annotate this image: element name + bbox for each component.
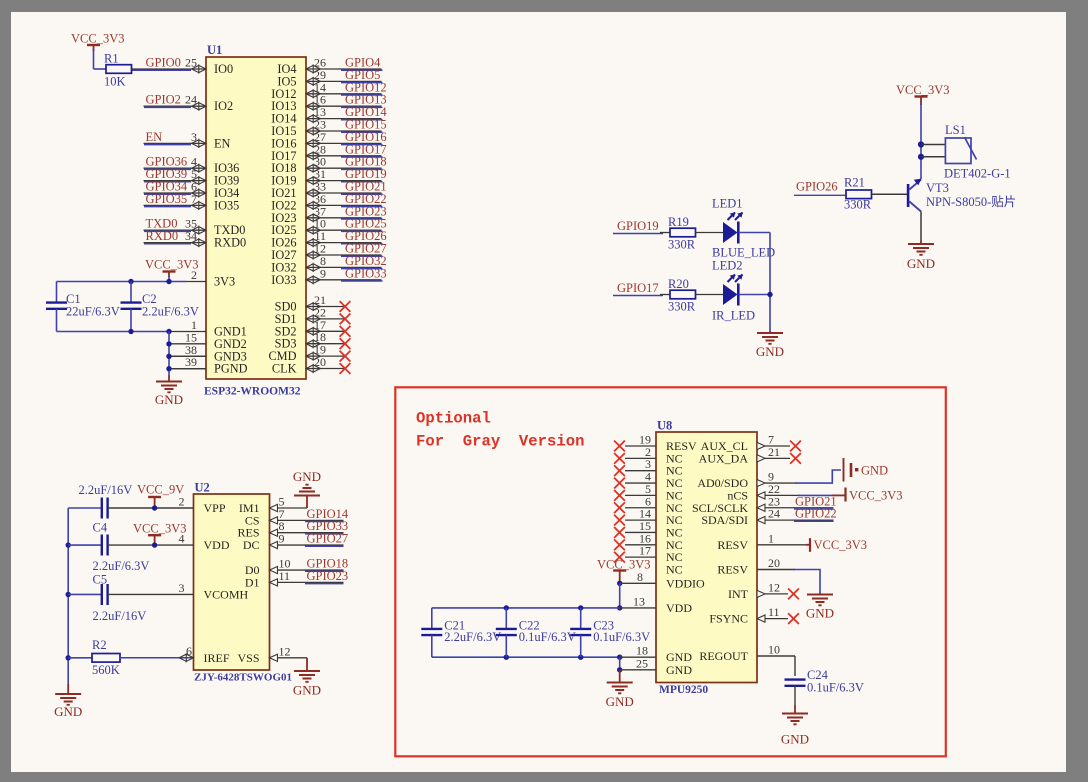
- wire: [341, 280, 383, 282]
- pin 7 (IO35): [144, 192, 240, 213]
- node junction: [578, 655, 583, 660]
- svg-text:17: 17: [639, 544, 651, 558]
- wire: [794, 520, 834, 522]
- wire: [57, 281, 187, 283]
- svg-text:VT3: VT3: [926, 181, 949, 195]
- pin 12 (VSS): [237, 644, 290, 665]
- LED LED2: [712, 259, 743, 306]
- wire: [613, 233, 663, 235]
- svg-text:R2: R2: [92, 638, 107, 652]
- svg-text:GND: GND: [54, 704, 82, 719]
- pin 20 (CLK) no-connect: [272, 355, 351, 376]
- svg-text:GPIO22: GPIO22: [795, 507, 837, 521]
- pin 11 (D1): [245, 569, 290, 590]
- pin 28 (IO17): [271, 142, 381, 163]
- wire: [341, 82, 383, 84]
- wire: [144, 243, 191, 245]
- svg-text:10: 10: [768, 643, 780, 657]
- wire: [660, 294, 670, 296]
- power VCC_9V: [137, 483, 184, 509]
- svg-text:NPN-S8050-贴片: NPN-S8050-贴片: [926, 195, 1016, 209]
- ground: [756, 331, 784, 359]
- svg-text:11: 11: [279, 569, 291, 583]
- svg-text:330R: 330R: [844, 198, 872, 212]
- svg-text:GPIO26: GPIO26: [796, 180, 838, 194]
- wire: [613, 295, 663, 297]
- pin 26 (IO4): [277, 56, 381, 77]
- wire: [432, 656, 620, 658]
- ground: [293, 469, 321, 508]
- svg-text:GND: GND: [756, 344, 784, 359]
- wire: [57, 331, 172, 333]
- power VCC_3V3: [145, 258, 198, 282]
- wire: [769, 233, 771, 332]
- wire: [144, 206, 191, 208]
- svg-text:SDA/SDI: SDA/SDI: [701, 513, 748, 527]
- pin 8 (VDDIO): [620, 570, 705, 591]
- pin 15 (GND2): [171, 330, 247, 351]
- node junction: [152, 542, 157, 547]
- svg-text:3V3: 3V3: [214, 275, 235, 289]
- svg-text:24: 24: [768, 507, 780, 521]
- wire: [794, 656, 796, 676]
- svg-text:21: 21: [768, 445, 780, 459]
- capacitor C22: [496, 608, 576, 657]
- svg-text:0.1uF/6.3V: 0.1uF/6.3V: [593, 630, 650, 644]
- pin 2 (VPP): [179, 495, 226, 516]
- pin 24 (IO2): [144, 93, 234, 114]
- svg-text:R21: R21: [844, 176, 865, 190]
- op-amp U1 body: [206, 57, 306, 379]
- pin 37 (IO23): [271, 204, 381, 225]
- wire: [168, 332, 170, 376]
- svg-text:25: 25: [185, 56, 197, 70]
- pin 19 (CMD) no-connect: [268, 343, 350, 364]
- pin 6 (IREF): [179, 644, 230, 665]
- node junction: [578, 605, 583, 610]
- optional region box: [395, 387, 946, 756]
- svg-text:3: 3: [179, 581, 185, 595]
- svg-text:39: 39: [185, 355, 197, 369]
- svg-text:GND: GND: [155, 392, 183, 407]
- svg-text:VCC_3V3: VCC_3V3: [71, 32, 124, 46]
- svg-text:GPIO2: GPIO2: [146, 93, 181, 107]
- svg-text:7: 7: [191, 192, 197, 206]
- svg-text:1: 1: [768, 531, 774, 545]
- wire: [341, 243, 383, 245]
- svg-text:Optional: Optional: [416, 410, 491, 428]
- ground: [293, 658, 321, 698]
- op-amp U2 body: [194, 494, 270, 670]
- pin 4 (IO36): [144, 155, 240, 176]
- ground: [907, 241, 935, 272]
- wire: [94, 68, 107, 70]
- svg-text:25: 25: [636, 656, 648, 670]
- wire: [341, 69, 383, 71]
- svg-text:330R: 330R: [668, 300, 696, 314]
- svg-text:RXD0: RXD0: [146, 229, 179, 243]
- svg-text:3: 3: [191, 130, 197, 144]
- pin 24 (SDA/SDI): [701, 507, 833, 528]
- svg-text:GPIO17: GPIO17: [617, 281, 659, 295]
- svg-text:U2: U2: [195, 481, 210, 495]
- pin 30 (IO18): [271, 155, 381, 176]
- node junction: [128, 279, 133, 284]
- svg-text:NC: NC: [666, 563, 683, 577]
- pin 27 (IO16): [271, 130, 381, 151]
- pin 20 (RESV): [717, 556, 795, 577]
- capacitor C24: [785, 668, 864, 705]
- svg-text:IO2: IO2: [214, 99, 233, 113]
- svg-text:ESP32-WROOM32: ESP32-WROOM32: [204, 386, 301, 398]
- svg-text:0.1uF/6.3V: 0.1uF/6.3V: [519, 630, 576, 644]
- pin 17 (SD2) no-connect: [275, 318, 351, 339]
- svg-text:VCC_3V3: VCC_3V3: [145, 258, 198, 272]
- svg-text:2: 2: [179, 495, 185, 509]
- svg-text:2.2uF/16V: 2.2uF/16V: [93, 609, 147, 623]
- pin 5 (NC) no-connect: [614, 482, 683, 503]
- svg-text:330R: 330R: [668, 238, 696, 252]
- pin 13 (IO14): [271, 105, 381, 126]
- svg-text:12: 12: [768, 580, 780, 594]
- svg-text:IO33: IO33: [271, 273, 296, 287]
- power VCC_3V3 bar: [832, 488, 902, 503]
- wire: [68, 657, 92, 659]
- svg-text:VDDIO: VDDIO: [666, 576, 705, 590]
- node junction: [166, 366, 171, 371]
- wire: [144, 106, 191, 108]
- svg-text:24: 24: [185, 93, 197, 107]
- pin 15 (NC) no-connect: [614, 519, 683, 540]
- svg-text:IREF: IREF: [204, 651, 230, 665]
- svg-text:IO0: IO0: [214, 62, 233, 76]
- wire: [278, 507, 308, 509]
- node junction: [66, 592, 71, 597]
- svg-text:2.2uF/6.3V: 2.2uF/6.3V: [93, 559, 150, 573]
- pin 33 (IO21): [271, 180, 381, 201]
- svg-text:R1: R1: [104, 52, 119, 66]
- pin 34 (RXD0): [144, 229, 247, 250]
- wire: [278, 532, 344, 534]
- wire: [278, 581, 344, 583]
- wire: [920, 212, 922, 241]
- svg-text:ZJY-6428TSWOG01: ZJY-6428TSWOG01: [194, 672, 292, 684]
- pin 10 (D0): [245, 557, 291, 578]
- capacitor C5: [93, 573, 147, 624]
- pin 21 (AUX_DA) no-connect: [699, 445, 801, 466]
- svg-text:12: 12: [279, 644, 291, 658]
- svg-text:RESV: RESV: [717, 563, 748, 577]
- svg-text:2.2uF/16V: 2.2uF/16V: [79, 483, 133, 497]
- svg-text:RESV: RESV: [717, 538, 748, 552]
- pin 6 (NC) no-connect: [614, 494, 683, 515]
- wire: [341, 106, 383, 108]
- wire: [108, 507, 194, 509]
- svg-text:BLUE_LED: BLUE_LED: [712, 246, 775, 260]
- svg-text:GPIO27: GPIO27: [307, 532, 349, 546]
- wire: [341, 230, 383, 232]
- svg-text:0.1uF/6.3V: 0.1uF/6.3V: [807, 681, 864, 695]
- wire: [68, 593, 102, 595]
- pin 36 (IO22): [271, 192, 381, 213]
- pin 19 (RESV) no-connect: [614, 433, 697, 454]
- svg-text:CLK: CLK: [272, 362, 297, 376]
- svg-text:IR_LED: IR_LED: [712, 309, 755, 323]
- svg-text:LED2: LED2: [712, 259, 743, 273]
- pin 7 (CS): [245, 507, 285, 528]
- svg-text:DET402-G-1: DET402-G-1: [944, 167, 1011, 181]
- node junction: [166, 341, 171, 346]
- pin 8 (IO32): [271, 254, 381, 275]
- pin 25 (IO0): [132, 56, 234, 77]
- wire: [341, 218, 383, 220]
- pin 22 (nCS): [727, 482, 800, 503]
- buzzer LS1: [945, 123, 977, 164]
- wire: [660, 232, 670, 234]
- pin 12 (INT) no-connect: [728, 580, 799, 601]
- svg-text:GND: GND: [606, 694, 634, 709]
- wire: [171, 368, 206, 370]
- wire: [67, 508, 69, 684]
- capacitor C3: [79, 483, 133, 519]
- wire: [619, 583, 621, 608]
- wire: [68, 544, 102, 546]
- wire: [341, 255, 383, 257]
- pin 16 (IO13): [271, 93, 381, 114]
- wire: [794, 194, 846, 196]
- ground GND bar: [844, 458, 889, 482]
- svg-text:10K: 10K: [104, 75, 126, 89]
- wire: [278, 657, 308, 659]
- pin 9 (DC): [243, 532, 285, 553]
- pin 39 (PGND): [171, 355, 248, 376]
- svg-text:GPIO35: GPIO35: [146, 192, 188, 206]
- svg-text:20: 20: [314, 355, 326, 369]
- svg-text:LS1: LS1: [945, 123, 966, 137]
- svg-text:8: 8: [637, 570, 643, 584]
- resistor R19: [668, 215, 696, 252]
- svg-text:GND: GND: [781, 732, 809, 747]
- svg-text:VCC_3V3: VCC_3V3: [896, 83, 949, 97]
- svg-text:2.2uF/6.3V: 2.2uF/6.3V: [444, 630, 501, 644]
- pin 3 (VCOMH): [179, 581, 249, 602]
- wire: [171, 343, 206, 345]
- svg-text:MPU9250: MPU9250: [659, 684, 708, 696]
- wire: [739, 294, 771, 296]
- svg-text:VDD: VDD: [666, 601, 692, 615]
- wire: [921, 156, 945, 158]
- ground: [155, 375, 183, 407]
- node junction: [152, 505, 157, 510]
- wire: [696, 294, 724, 296]
- svg-text:22uF/6.3V: 22uF/6.3V: [66, 305, 120, 319]
- svg-text:C4: C4: [93, 521, 108, 535]
- node junction: [918, 141, 924, 147]
- svg-text:LED1: LED1: [712, 197, 743, 211]
- svg-text:DC: DC: [243, 538, 260, 552]
- resistor R21: [844, 176, 872, 212]
- pin 11 (IO26): [271, 229, 381, 250]
- svg-text:FSYNC: FSYNC: [709, 612, 748, 626]
- svg-text:GND: GND: [293, 469, 321, 484]
- svg-text:REGOUT: REGOUT: [699, 649, 748, 663]
- pin 17 (NC) no-connect: [614, 544, 683, 565]
- resistor R2: [92, 638, 120, 677]
- wire: [793, 570, 820, 594]
- wire: [132, 69, 191, 71]
- node junction: [166, 279, 171, 284]
- svg-text:U1: U1: [207, 43, 222, 57]
- ground: [806, 593, 834, 621]
- wire: [794, 508, 834, 510]
- svg-text:VDD: VDD: [204, 538, 230, 552]
- pin 12 (IO27): [271, 242, 381, 263]
- pin 21 (SD0) no-connect: [275, 293, 351, 314]
- svg-text:R20: R20: [668, 277, 689, 291]
- svg-text:PGND: PGND: [214, 362, 248, 376]
- wire: [108, 593, 194, 595]
- pin 5 (IM1): [239, 495, 285, 516]
- pin 1 (RESV): [717, 531, 806, 552]
- ground: [54, 684, 82, 719]
- capacitor C21: [421, 608, 501, 657]
- svg-text:GPIO0: GPIO0: [146, 56, 181, 70]
- pin 10 (REGOUT): [699, 643, 795, 664]
- svg-text:11: 11: [768, 605, 780, 619]
- pin 9 (AD0/SDO): [697, 470, 796, 491]
- node junction: [617, 605, 622, 610]
- op-amp U8 body: [656, 432, 757, 683]
- svg-text:VCC_3V3: VCC_3V3: [849, 489, 902, 503]
- pin 35 (TXD0): [144, 217, 246, 238]
- wire: [144, 193, 191, 195]
- power VCC_3V3 bar: [806, 538, 867, 552]
- svg-text:20: 20: [768, 556, 780, 570]
- wire: [68, 507, 102, 509]
- pin 5 (IO39): [144, 167, 240, 188]
- ground: [781, 705, 809, 747]
- pin 8 (RES): [237, 519, 284, 540]
- wire: [144, 230, 191, 232]
- wire: [341, 94, 383, 96]
- svg-text:VCC_9V: VCC_9V: [137, 483, 184, 497]
- svg-text:2.2uF/6.3V: 2.2uF/6.3V: [142, 305, 199, 319]
- transistor VT3: [907, 179, 1016, 212]
- svg-text:4: 4: [179, 532, 185, 546]
- wire: [144, 144, 191, 146]
- pin 1 (GND1): [171, 318, 247, 339]
- wire: [341, 206, 383, 208]
- resistor R20: [668, 277, 696, 314]
- wire: [120, 657, 194, 659]
- node junction: [767, 292, 772, 297]
- wire: [795, 470, 841, 483]
- node junction: [617, 667, 622, 672]
- wire: [341, 168, 383, 170]
- wire: [278, 544, 344, 546]
- node junction: [166, 329, 171, 334]
- pin 3 (EN): [144, 130, 231, 151]
- wire: [108, 544, 194, 546]
- svg-text:GND: GND: [806, 606, 834, 621]
- svg-text:AUX_DA: AUX_DA: [699, 451, 749, 465]
- svg-text:GPIO33: GPIO33: [345, 266, 387, 280]
- wire: [341, 193, 383, 195]
- wire: [341, 119, 383, 121]
- node junction: [617, 581, 622, 586]
- pin 4 (NC) no-connect: [614, 470, 683, 491]
- pin 3 (NC) no-connect: [614, 457, 683, 478]
- node junction: [66, 542, 71, 547]
- pin 2 (NC) no-connect: [614, 445, 683, 466]
- wire: [341, 156, 383, 158]
- pin 14 (NC) no-connect: [614, 507, 683, 528]
- node junction: [504, 655, 509, 660]
- svg-text:RXD0: RXD0: [214, 236, 246, 250]
- capacitor C23: [570, 608, 650, 657]
- svg-text:GND: GND: [907, 256, 935, 271]
- svg-text:9: 9: [320, 266, 326, 280]
- pin 6 (IO34): [144, 180, 240, 201]
- pin 9 (IO33): [271, 266, 381, 287]
- svg-text:VPP: VPP: [204, 501, 226, 515]
- resistor R1: [104, 52, 132, 89]
- node junction: [66, 655, 71, 660]
- svg-text:IO35: IO35: [214, 198, 239, 212]
- pin 22 (SD1) no-connect: [275, 305, 351, 326]
- node junction: [617, 655, 622, 660]
- wire: [278, 519, 344, 521]
- svg-text:GPIO19: GPIO19: [617, 219, 659, 233]
- pin 18 (SD3) no-connect: [275, 330, 351, 351]
- svg-text:34: 34: [185, 229, 197, 243]
- wire: [432, 607, 620, 609]
- wire: [341, 181, 383, 183]
- wire: [341, 144, 383, 146]
- wire: [739, 232, 771, 234]
- pin 18 (GND): [620, 644, 693, 665]
- pin 7 (AUX_CL) no-connect: [701, 433, 801, 454]
- svg-text:EN: EN: [214, 136, 231, 150]
- svg-text:INT: INT: [728, 587, 749, 601]
- pin 13 (VDD): [620, 594, 693, 615]
- svg-text:9: 9: [279, 532, 285, 546]
- svg-text:VCOMH: VCOMH: [204, 587, 249, 601]
- wire: [920, 145, 922, 180]
- svg-text:560K: 560K: [92, 663, 120, 677]
- wire: [341, 268, 383, 270]
- pin 11 (FSYNC) no-connect: [709, 605, 799, 626]
- node junction: [166, 354, 171, 359]
- svg-text:C5: C5: [93, 573, 108, 587]
- wire: [171, 355, 206, 357]
- node junction: [128, 329, 133, 334]
- wire: [696, 232, 724, 234]
- wire: [278, 569, 344, 571]
- svg-text:U8: U8: [657, 419, 672, 433]
- wire: [144, 168, 191, 170]
- power VCC_3V3: [597, 558, 650, 584]
- capacitor C1: [46, 282, 120, 332]
- pin 29 (IO5): [277, 68, 381, 89]
- node junction: [918, 154, 924, 160]
- wire: [798, 494, 832, 496]
- pin 16 (NC) no-connect: [614, 531, 683, 552]
- wire: [144, 181, 191, 183]
- wire: [341, 131, 383, 133]
- power VCC_3V3: [133, 522, 186, 546]
- svg-text:6: 6: [186, 644, 192, 658]
